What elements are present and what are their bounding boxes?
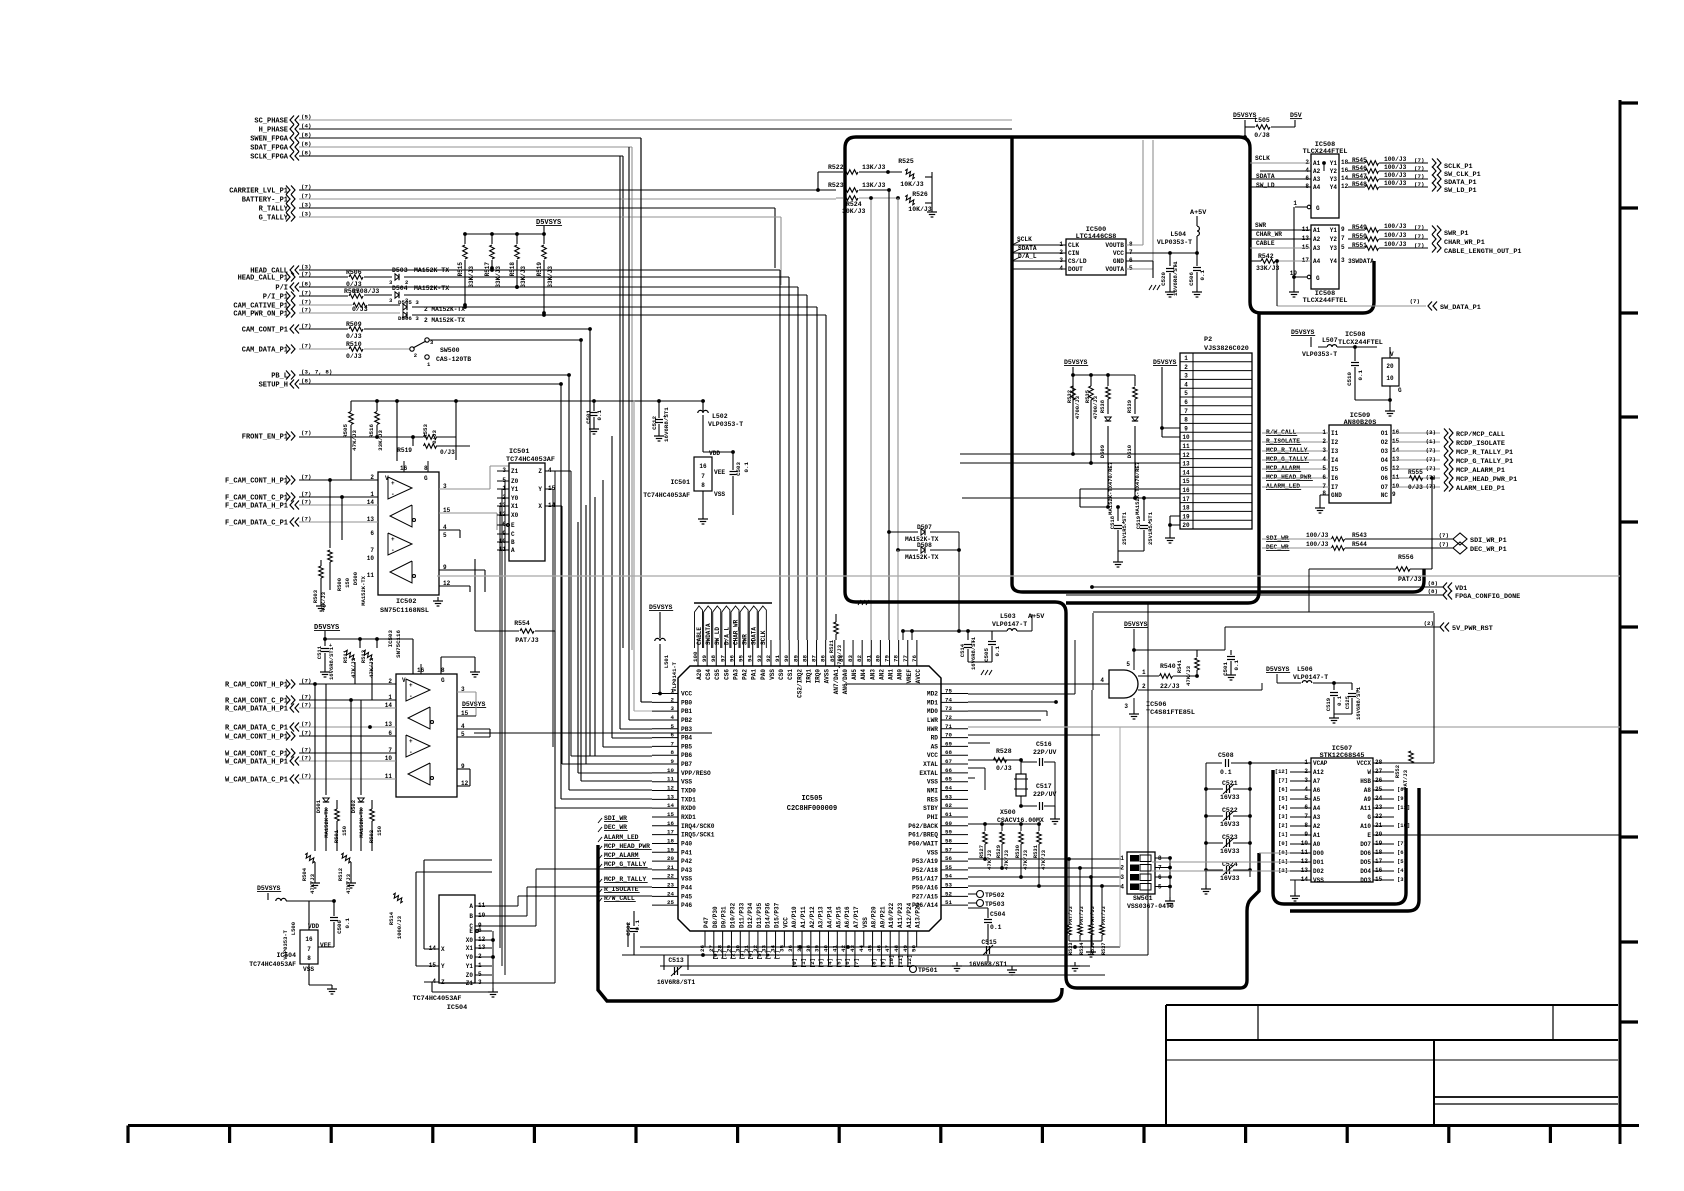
svg-text:L504: L504 [1170, 231, 1186, 238]
svg-text:VSS: VSS [681, 876, 692, 883]
svg-text:A9/P21: A9/P21 [879, 906, 886, 928]
svg-text:I6: I6 [1331, 475, 1339, 482]
svg-text:69: 69 [945, 740, 952, 747]
svg-text:IC505: IC505 [801, 795, 822, 803]
pin 94 PA1 [752, 640, 754, 666]
svg-text:8: 8 [424, 465, 428, 472]
diode D509 + R538 MA152K-TX470/RE7 [1106, 373, 1110, 377]
svg-text:R515: R515 [457, 262, 464, 277]
resistor R525 10K/J3 [904, 169, 916, 180]
svg-text:SW_CLK_P1: SW_CLK_P1 [1444, 171, 1481, 179]
svg-text:4700/J3: 4700/J3 [1074, 395, 1081, 419]
svg-text:95: 95 [738, 655, 745, 662]
svg-text:AN3: AN3 [869, 669, 876, 680]
pin 87 IRQ0 [816, 640, 818, 666]
ground [437, 597, 439, 601]
port MCP_R_TALLY_P1 [1391, 450, 1440, 452]
svg-text:IC504: IC504 [447, 1004, 467, 1012]
pin 5 PB3 [652, 728, 678, 730]
svg-text:G: G [1316, 205, 1320, 212]
diode D505 MA152K-TX [403, 304, 407, 310]
svg-text:16V6R8/ST1: 16V6R8/ST1 [970, 636, 977, 670]
svg-text:A2: A2 [1313, 236, 1321, 243]
svg-text:DO6: DO6 [1360, 850, 1371, 857]
svg-text:R556: R556 [1398, 554, 1414, 561]
svg-text:AN4: AN4 [860, 669, 867, 680]
svg-text:100/J3: 100/J3 [1384, 164, 1407, 171]
svg-text:18: 18 [667, 837, 674, 844]
svg-text:75: 75 [945, 688, 952, 695]
testpoint TP501 [910, 966, 917, 973]
svg-text:86: 86 [820, 655, 827, 662]
port SDI_WR_P1 [1453, 533, 1467, 545]
op-amp A4 [390, 561, 412, 583]
svg-text:W_CAM_DATA_C_P1: W_CAM_DATA_C_P1 [225, 777, 288, 785]
ic IC501 power pins [694, 457, 712, 491]
pin 97 CS6 [724, 640, 726, 666]
svg-text:DO5: DO5 [1360, 859, 1371, 866]
pin 86 AVSS [825, 640, 827, 666]
svg-text:TP502: TP502 [985, 892, 1005, 899]
svg-text:17: 17 [1182, 496, 1190, 503]
svg-text:93: 93 [756, 655, 763, 662]
svg-text:A20: A20 [696, 669, 703, 680]
resistor R516 33K/J3 [376, 401, 378, 411]
svg-text:IRQ5/SCK1: IRQ5/SCK1 [681, 832, 715, 839]
pin 40 A4/P14 [827, 931, 829, 947]
svg-text:ALARM_LED_P1: ALARM_LED_P1 [1456, 485, 1505, 493]
svg-text:D01: D01 [1313, 859, 1324, 866]
svg-text:A2: A2 [1313, 168, 1321, 175]
wire P/I [299, 286, 798, 288]
svg-text:98: 98 [710, 655, 717, 662]
port MCP_ALARM_P1 [1391, 468, 1440, 470]
svg-text:11: 11 [367, 572, 375, 579]
svg-text:0.1: 0.1 [1233, 659, 1240, 670]
wire vertical x1148 [1147, 603, 1149, 955]
svg-text:(7): (7) [1414, 173, 1424, 180]
svg-text:D508: D508 [917, 542, 932, 549]
svg-text:8: 8 [1322, 490, 1326, 497]
svg-text:PB0: PB0 [681, 699, 692, 706]
resistor R537 PAT/J3 [1101, 886, 1103, 925]
wire gate out 2 [1138, 689, 1262, 691]
svg-text:G_TALLY: G_TALLY [259, 215, 289, 223]
svg-text:VREF: VREF [906, 669, 913, 684]
wires to P2 rows [1072, 386, 1074, 454]
svg-text:47K/J3: 47K/J3 [1185, 665, 1192, 686]
resistor R526 10K/J3 [904, 195, 916, 206]
resistor R505 47K/J3 [350, 401, 352, 411]
svg-text:C516: C516 [1036, 741, 1052, 748]
svg-text:D509: D509 [1099, 445, 1106, 458]
pin 58 P60/WAIT [941, 842, 968, 844]
wire IC501 Z out [545, 470, 571, 472]
svg-text:R526: R526 [912, 191, 928, 198]
svg-text:-: - [391, 547, 395, 554]
capacitor C510 0.1 [1354, 347, 1356, 361]
svg-text:14: 14 [667, 802, 674, 809]
svg-text:[10]: [10] [888, 955, 895, 968]
pin 62 STBY [941, 807, 968, 809]
ground [1011, 966, 1013, 970]
svg-text:0/J3: 0/J3 [431, 429, 438, 443]
sheet border frame [128, 1124, 1639, 1127]
resistor R510 0/J3 [299, 348, 348, 350]
svg-text:(7): (7) [1414, 181, 1424, 188]
capacitor C518 25V1R5/ST1 [1117, 507, 1119, 521]
svg-text:8: 8 [307, 955, 311, 962]
svg-text:A4: A4 [1313, 805, 1321, 812]
svg-text:100/J3: 100/J3 [1384, 172, 1407, 179]
port ALARM_LED_P1 [1391, 486, 1440, 488]
wire SETUP_H [299, 383, 561, 385]
svg-text:81: 81 [865, 655, 872, 662]
port FPGA_CONFIG_DONE [1066, 594, 1443, 596]
svg-text:25V1R5/ST1: 25V1R5/ST1 [1121, 511, 1128, 545]
svg-text:68: 68 [945, 749, 952, 756]
svg-text:[6]: [6] [765, 950, 772, 960]
wire HEAD_CALL [299, 269, 780, 271]
svg-text:D501: D501 [315, 799, 322, 813]
pin 16 IRQ4/SCK0 [652, 825, 678, 827]
svg-text:R531: R531 [1032, 844, 1039, 858]
svg-text:A3: A3 [1313, 176, 1321, 183]
svg-text:NMI: NMI [927, 788, 938, 795]
svg-text:PB2: PB2 [681, 717, 692, 724]
svg-text:I2: I2 [1331, 439, 1339, 446]
svg-text:[7]: [7] [774, 950, 781, 960]
wire F_CAM_CONT_C_P1 [299, 496, 378, 498]
resistor R534 PAT/J3 [1079, 868, 1081, 925]
svg-text:9: 9 [1392, 491, 1396, 498]
svg-text:63: 63 [945, 793, 952, 800]
svg-text:TXD0: TXD0 [681, 788, 696, 795]
svg-text:P60/WAIT: P60/WAIT [908, 840, 938, 847]
svg-text:O4: O4 [1381, 457, 1389, 464]
svg-text:A0: A0 [1313, 841, 1321, 848]
svg-text:D5VSYS: D5VSYS [1064, 359, 1088, 366]
svg-text:R530: R530 [1014, 845, 1021, 858]
title block [1166, 1004, 1618, 1006]
svg-text:Z0: Z0 [466, 972, 474, 979]
svg-text:SC_PHASE: SC_PHASE [254, 118, 288, 126]
wire LWR [968, 719, 1041, 721]
svg-text:LTC1446CS8: LTC1446CS8 [1076, 233, 1117, 241]
svg-text:D5V: D5V [1290, 112, 1302, 119]
svg-text:R512: R512 [337, 868, 344, 881]
svg-text:C508: C508 [1218, 752, 1234, 759]
resistor R513 47K/J3 [362, 650, 374, 661]
svg-text:47K/J3: 47K/J3 [1022, 849, 1029, 870]
svg-text:65: 65 [945, 776, 952, 783]
svg-text:60: 60 [945, 820, 952, 827]
svg-text:15: 15 [667, 811, 674, 818]
svg-text:R544: R544 [1352, 541, 1367, 548]
svg-text:CHAR_WR: CHAR_WR [732, 619, 739, 645]
svg-text:3: 3 [1341, 257, 1345, 264]
svg-text:16V6R8/ST1: 16V6R8/ST1 [1172, 261, 1179, 296]
svg-text:VSS: VSS [1313, 877, 1324, 884]
svg-text:47K/J3: 47K/J3 [1003, 849, 1010, 870]
svg-text:+: + [409, 682, 413, 689]
svg-text:33K/J3: 33K/J3 [1256, 265, 1280, 272]
svg-text:67: 67 [945, 758, 952, 765]
ground [320, 602, 322, 606]
ground [931, 208, 933, 212]
svg-text:D00: D00 [1313, 850, 1324, 857]
port RCP/MCP_CALL [1391, 432, 1440, 434]
svg-text:L507: L507 [1322, 337, 1338, 344]
pin 72 LWR [941, 719, 968, 721]
svg-text:CAM_CONT_P1: CAM_CONT_P1 [242, 327, 288, 335]
svg-text:A10: A10 [1360, 823, 1371, 830]
svg-text:R535: R535 [1084, 389, 1091, 403]
svg-text:7: 7 [1184, 408, 1188, 415]
svg-text:5V_PWR_RST: 5V_PWR_RST [1452, 625, 1493, 633]
svg-text:11: 11 [1182, 443, 1190, 450]
pin 20 P42 [652, 860, 678, 862]
svg-text:IC502: IC502 [396, 598, 416, 606]
svg-text:D11/P33: D11/P33 [738, 902, 745, 928]
pin 96 PA3 [733, 640, 735, 666]
ic IC508 TLCX244FTEL upper [1311, 154, 1339, 218]
svg-text:7: 7 [307, 946, 311, 953]
svg-text:HWR: HWR [927, 726, 938, 733]
svg-text:PAT/J3: PAT/J3 [1402, 769, 1409, 790]
pin 9 PB7 [652, 763, 678, 765]
svg-text:94: 94 [747, 655, 754, 662]
svg-text:2: 2 [1184, 364, 1188, 371]
svg-text:VSS: VSS [681, 779, 692, 786]
pin 28 D9/P31 [722, 931, 724, 947]
resistor R511 47K/J3 [344, 650, 356, 661]
svg-text:A3: A3 [1313, 814, 1321, 821]
svg-text:TLCX244FTEL: TLCX244FTEL [1303, 297, 1348, 305]
svg-text:CABLE_LENGTH_OUT_P1: CABLE_LENGTH_OUT_P1 [1444, 248, 1522, 256]
svg-text:P46: P46 [681, 902, 692, 909]
svg-text:Y0: Y0 [511, 495, 519, 502]
svg-text:AVCC: AVCC [915, 669, 922, 684]
pin 53 P50/A16 [941, 887, 968, 889]
resistor R531 47K/J3 [1037, 822, 1041, 826]
svg-text:CABLE: CABLE [1256, 240, 1275, 247]
svg-text:(7): (7) [1414, 157, 1424, 164]
pin 51 P26/A14 [941, 904, 968, 906]
svg-text:O1: O1 [1381, 430, 1389, 437]
svg-text:D/A_L: D/A_L [1018, 253, 1037, 260]
svg-text:13K/J3: 13K/J3 [862, 164, 886, 171]
diode D507 MA152K-TX [889, 531, 918, 533]
pin 83 AN5 [852, 640, 854, 666]
svg-text:DEC_WR: DEC_WR [604, 824, 627, 831]
svg-text:2 MA152K-TX: 2 MA152K-TX [424, 306, 465, 313]
svg-text:SCLK: SCLK [760, 630, 767, 645]
svg-text:O3: O3 [1381, 448, 1389, 455]
svg-text:[6]: [6] [1397, 849, 1407, 856]
svg-text:AN5: AN5 [851, 669, 858, 680]
wire R_TALLY [299, 207, 775, 209]
svg-text:[3]: [3] [738, 950, 745, 960]
svg-text:85: 85 [829, 655, 836, 662]
svg-text:57: 57 [945, 846, 952, 853]
svg-text:SWEN_FPGA: SWEN_FPGA [250, 136, 289, 144]
wire bottom rails [640, 946, 1120, 948]
capacitor C504 0.1 [987, 908, 989, 918]
svg-text:D10/P32: D10/P32 [729, 902, 736, 928]
svg-text:MCP_G_TALLY: MCP_G_TALLY [604, 861, 646, 868]
svg-text:A2/P12: A2/P12 [809, 906, 816, 928]
svg-text:I5: I5 [1331, 466, 1339, 473]
svg-text:96: 96 [728, 655, 735, 662]
svg-text:C504: C504 [990, 911, 1006, 918]
ground [956, 962, 958, 966]
svg-text:Y2: Y2 [1330, 168, 1338, 175]
svg-text:LWR: LWR [927, 717, 938, 724]
pin 18 P40 [652, 842, 678, 844]
svg-text:R511: R511 [342, 649, 349, 663]
capacitor C505 0.1 [991, 631, 993, 640]
svg-text:C505: C505 [983, 647, 990, 661]
svg-text:16V33: 16V33 [1220, 794, 1240, 801]
op-amp B2 [408, 707, 430, 729]
resistor R504 47K/J3 [304, 853, 316, 864]
pin 43 A7/P17 [854, 931, 856, 947]
svg-text:7: 7 [1341, 235, 1345, 242]
svg-text:C515: C515 [981, 939, 997, 946]
op-amp B3 [406, 735, 430, 757]
svg-text:88: 88 [801, 655, 808, 662]
ground [492, 988, 494, 992]
svg-text:VLP0353-T: VLP0353-T [1157, 239, 1192, 246]
svg-text:62: 62 [945, 802, 952, 809]
svg-text:R514: R514 [388, 911, 395, 925]
svg-text:IC501: IC501 [670, 479, 690, 486]
pin 44 VSS [863, 931, 865, 947]
svg-text:14: 14 [1341, 175, 1349, 182]
crystal X500 CSACV16.00MX [1016, 774, 1026, 796]
capacitor C506 0.1 [1196, 253, 1198, 266]
svg-text:R_CAM_DATA_C_P1: R_CAM_DATA_C_P1 [225, 725, 288, 733]
svg-text:CS2/IRQ2: CS2/IRQ2 [796, 669, 803, 698]
svg-text:TXD1: TXD1 [681, 796, 696, 803]
pin 22 VSS [652, 878, 678, 880]
svg-text:D5VSYS: D5VSYS [1153, 359, 1177, 366]
svg-text:PA0: PA0 [760, 669, 767, 680]
svg-text:3: 3 [1322, 447, 1326, 454]
svg-text:47K/J3: 47K/J3 [351, 429, 358, 450]
svg-text:NC: NC [1381, 492, 1389, 499]
svg-text:VOUTB: VOUTB [1105, 242, 1124, 249]
port SW_CLK_P1 [1432, 167, 1436, 176]
svg-text:R508/J3: R508/J3 [352, 288, 379, 295]
svg-text:16: 16 [667, 820, 674, 827]
svg-text:CAM_PWR_ON_P1: CAM_PWR_ON_P1 [233, 311, 288, 319]
svg-text:33K/J3: 33K/J3 [495, 266, 502, 288]
svg-text:12: 12 [1182, 452, 1190, 459]
svg-text:CS4: CS4 [705, 669, 712, 680]
svg-text:1: 1 [1293, 200, 1297, 207]
pin 65 VSS [941, 781, 968, 783]
svg-text:IRQ1: IRQ1 [805, 669, 812, 684]
svg-text:0/J3: 0/J3 [1408, 484, 1423, 491]
svg-text:A6/P16: A6/P16 [844, 906, 851, 928]
svg-text:0.1: 0.1 [1199, 269, 1206, 280]
svg-text:R519: R519 [536, 262, 543, 277]
svg-text:7: 7 [1322, 483, 1326, 490]
svg-text:R532: R532 [1066, 390, 1073, 403]
pin 31 D12/P34 [748, 931, 750, 947]
svg-text:D15/P37: D15/P37 [774, 902, 781, 928]
svg-text:D506 3: D506 3 [398, 315, 419, 322]
pin 38 A2/P12 [810, 931, 812, 947]
pin 8 PB6 [652, 754, 678, 756]
svg-text:PAT/J3: PAT/J3 [1079, 906, 1085, 925]
wire SDAT_FPGA [299, 146, 632, 148]
svg-text:D5VSYS: D5VSYS [257, 885, 281, 892]
pin 37 A1/P11 [801, 931, 803, 947]
svg-text:R517: R517 [484, 262, 491, 277]
svg-text:33K/J3: 33K/J3 [547, 266, 554, 288]
svg-text:SDATA_P1: SDATA_P1 [1444, 179, 1477, 187]
svg-text:(7): (7) [1439, 541, 1449, 548]
svg-text:0.1: 0.1 [634, 919, 641, 930]
pin 14 RXD0 [652, 807, 678, 809]
ground [1152, 261, 1154, 278]
svg-text:A7/P17: A7/P17 [853, 906, 860, 928]
svg-text:0/J3: 0/J3 [996, 765, 1012, 772]
svg-text:3: 3 [1184, 373, 1188, 380]
svg-text:A8: A8 [1364, 787, 1372, 794]
svg-text:[6]: [6] [1278, 786, 1288, 793]
svg-text:MA152K-TX: MA152K-TX [905, 554, 939, 561]
svg-text:A12: A12 [1313, 769, 1324, 776]
svg-text:PA3: PA3 [732, 669, 739, 680]
power rail D5VSYS over IC502 [351, 400, 705, 402]
svg-text:10: 10 [367, 555, 375, 562]
svg-text:(7): (7) [1426, 465, 1436, 472]
svg-text:VCCX: VCCX [1357, 760, 1372, 767]
svg-text:A+5V: A+5V [1190, 209, 1207, 217]
resistor R517 33K/J3 [490, 232, 494, 236]
svg-text:[1]: [1] [1278, 831, 1288, 838]
svg-text:R546: R546 [1352, 165, 1367, 172]
svg-text:A4: A4 [1313, 258, 1321, 265]
svg-text:H_PHASE: H_PHASE [259, 127, 288, 135]
svg-text:AN6/DA0: AN6/DA0 [842, 669, 849, 695]
svg-text:A6: A6 [1313, 787, 1321, 794]
resistor R529 47K/J3 [1000, 822, 1004, 826]
svg-text:VLP0353-T: VLP0353-T [1302, 351, 1337, 358]
svg-text:A+5V: A+5V [1028, 613, 1045, 621]
svg-text:DO4: DO4 [1360, 868, 1371, 875]
svg-text:16V33: 16V33 [1220, 875, 1240, 882]
svg-text:83: 83 [847, 655, 854, 662]
pin 59 P61/BREQ [941, 834, 968, 836]
wire CAM_PWR_ON_P1 [299, 312, 400, 314]
capacitor C503 0.1 [474, 732, 712, 734]
svg-text:P2: P2 [1204, 336, 1212, 344]
svg-text:P53/A19: P53/A19 [912, 858, 938, 865]
svg-text:7: 7 [701, 473, 705, 480]
svg-text:33K/J3: 33K/J3 [520, 266, 527, 288]
svg-text:MA152K-TX: MA152K-TX [323, 807, 330, 837]
ground [1205, 885, 1207, 889]
resistor R535 4700/J3 [1089, 373, 1093, 377]
svg-text:Y3: Y3 [1330, 245, 1338, 252]
pin 2 PB0 [652, 701, 678, 703]
svg-text:55: 55 [945, 864, 952, 871]
